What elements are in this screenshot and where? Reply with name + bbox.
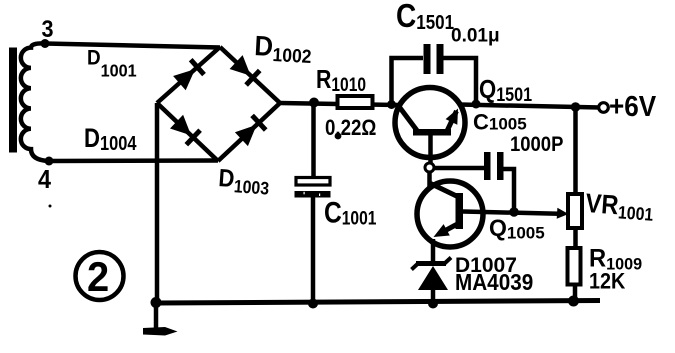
transformer core bar [9, 48, 17, 153]
node: rectifier output junction [309, 98, 319, 108]
wire: open node to C1005 [433, 166, 484, 171]
wire: VR1001 to R1009 [573, 228, 578, 248]
wire: Q1005 emitter down to D1007 [431, 239, 436, 262]
svg-text:D1002: D1002 [254, 30, 313, 67]
capacitor C1501 plates [424, 44, 444, 74]
wire: junction down to C1001 [311, 103, 316, 178]
wire: bridge right corner to R1010 and Q1501 collector [280, 103, 399, 105]
bridge arm lower-left [157, 103, 218, 161]
C1001 label [324, 195, 377, 229]
node: C1001 on ground rail [308, 299, 318, 309]
C1501 value 0.01u [451, 26, 500, 47]
node: C1501 right junction [472, 100, 481, 109]
bridge arm upper-right [220, 47, 280, 103]
diode D1003 [235, 125, 257, 146]
capacitor C1001 bottom plate [295, 191, 331, 198]
diode D1004 label [84, 124, 137, 154]
VR1001 label [584, 189, 654, 225]
diode D1002 [230, 55, 251, 76]
svg-text:R1010: R1010 [316, 65, 366, 95]
R1010 value 0.22 ohm [325, 117, 376, 141]
wire: emitter rail to +6V [459, 105, 600, 108]
transistor Q1005 [417, 181, 484, 247]
svg-text:D1003: D1003 [217, 164, 270, 199]
C1005 label [473, 109, 527, 134]
node: C1501 left junction [387, 100, 396, 109]
wire: R1009 to ground rail [573, 285, 578, 302]
C1005 value 1000P [510, 133, 563, 156]
svg-text:12K: 12K [589, 270, 625, 294]
+6V terminal [599, 103, 609, 113]
VR1001 wiper arrowhead [557, 208, 569, 219]
node: D1007 on ground rail [428, 299, 438, 309]
svg-text:3: 3 [42, 15, 54, 42]
node: Q1501 base junction (open) [425, 163, 434, 172]
transformer winding [21, 43, 49, 161]
svg-text:Q1501: Q1501 [479, 75, 532, 105]
terminal 3 label [42, 15, 54, 42]
wire: C1001 to ground rail [311, 197, 316, 303]
terminal 3 node [41, 39, 50, 48]
transistor Q1501 [395, 88, 465, 164]
+6V label [609, 90, 657, 123]
node: ground junction [151, 297, 162, 308]
svg-text:D1001: D1001 [87, 47, 137, 81]
svg-text:C1005: C1005 [473, 109, 527, 134]
diode D1004 [170, 115, 191, 136]
diode D1001 [173, 69, 195, 90]
bridge arm upper-left [157, 47, 220, 103]
D1007 label [455, 254, 517, 277]
node: C1005/base junction [509, 207, 519, 217]
wire: terminal 4 to bridge bottom [49, 158, 218, 163]
diode D1001 label [87, 47, 137, 81]
C1501 label [396, 0, 454, 35]
svg-text:1000P: 1000P [510, 133, 563, 156]
R1009 value 12K [589, 270, 625, 294]
capacitor C1001 top plate [296, 178, 330, 186]
figure number 2 circle [76, 252, 124, 300]
svg-text:2: 2 [87, 253, 109, 300]
D1007 value MA4039 [455, 269, 533, 295]
wire: ground stub [154, 303, 159, 329]
wire: C1005 right to Q1005 base [504, 169, 515, 212]
svg-text:+6V: +6V [609, 90, 657, 123]
Q1005 label [489, 215, 545, 243]
ground rail [156, 301, 600, 304]
svg-text:VR1001: VR1001 [584, 189, 654, 225]
R1010 label [316, 65, 366, 95]
wire: terminal 3 to bridge top [45, 44, 220, 48]
bridge arm lower-right [218, 103, 280, 161]
wire: bridge left corner down to ground rail [155, 103, 160, 301]
scan speck [49, 205, 52, 208]
wire: open node to Q1005 collector [427, 171, 432, 190]
svg-text:MA4039: MA4039 [455, 269, 533, 295]
Q1501 label [479, 75, 532, 105]
capacitor C1005 plates [484, 152, 504, 180]
ground symbol [143, 327, 178, 336]
R1009 label [589, 245, 642, 274]
svg-text:D1004: D1004 [84, 124, 137, 154]
svg-text:4: 4 [38, 166, 51, 194]
potentiometer VR1001 body [568, 194, 582, 228]
terminal 4 label [38, 166, 51, 194]
decimal point blob of 0.22 [335, 133, 342, 140]
svg-text:C1001: C1001 [324, 195, 377, 229]
resistor R1009 [568, 248, 581, 285]
wire: Q1005 base to VR1001 wiper [484, 212, 559, 214]
node: +6V rail to VR1001 [571, 102, 581, 112]
resistor R1010 [338, 96, 373, 108]
figure number 2 [87, 253, 109, 300]
capacitor C1501 right wire [444, 58, 477, 104]
zener diode D1007 [412, 258, 452, 304]
wire: rail down to VR1001 [573, 107, 578, 194]
node: R1009 on ground rail [568, 296, 579, 307]
svg-text:0.22Ω: 0.22Ω [325, 117, 376, 141]
svg-text:0.01μ: 0.01μ [451, 26, 500, 47]
capacitor C1501 left wire [392, 58, 424, 105]
svg-text:C1501: C1501 [396, 0, 454, 35]
svg-text:Q1005: Q1005 [489, 215, 545, 243]
diode D1003 label [217, 164, 270, 199]
terminal 4 node [45, 157, 54, 166]
diode D1002 label [254, 30, 313, 67]
